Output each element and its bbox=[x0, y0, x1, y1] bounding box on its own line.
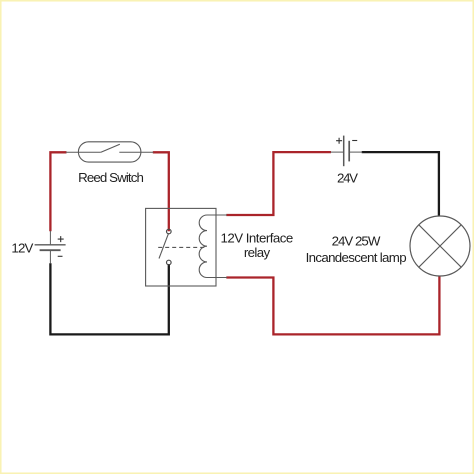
svg-text:24V 25W: 24V 25W bbox=[332, 234, 381, 249]
svg-text:12V Interface: 12V Interface bbox=[221, 230, 294, 245]
svg-text:12V: 12V bbox=[11, 241, 33, 256]
svg-text:relay: relay bbox=[244, 245, 271, 260]
svg-text:Reed Switch: Reed Switch bbox=[78, 170, 144, 185]
svg-text:24V: 24V bbox=[337, 171, 358, 186]
svg-text:Incandescent lamp: Incandescent lamp bbox=[306, 250, 407, 265]
